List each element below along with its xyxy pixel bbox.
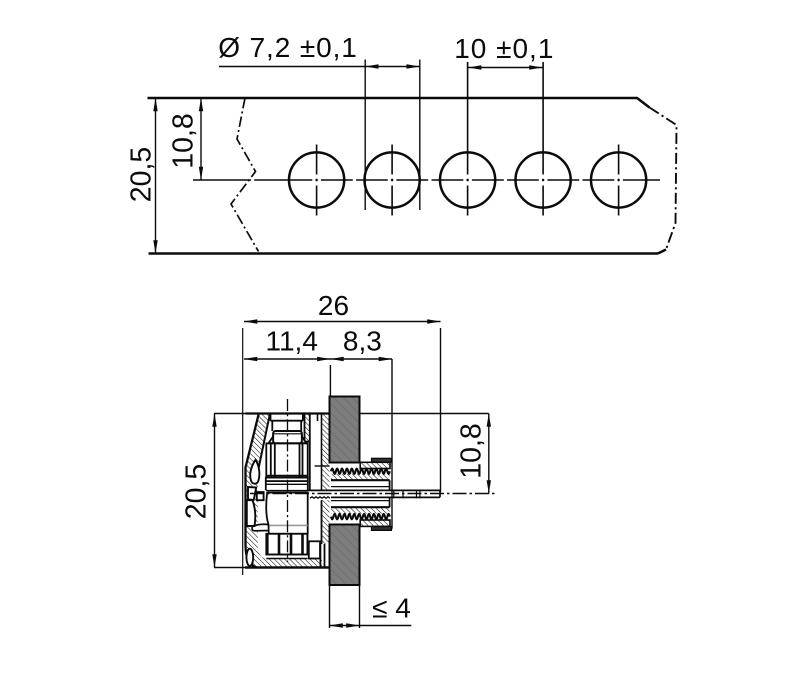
svg-text:8,3: 8,3 [343, 326, 382, 357]
svg-text:Ø 7,2 ±0,1: Ø 7,2 ±0,1 [218, 32, 358, 63]
svg-text:10,8: 10,8 [456, 423, 488, 478]
svg-text:20,5: 20,5 [181, 464, 213, 519]
svg-text:10 ±0,1: 10 ±0,1 [454, 33, 554, 64]
svg-text:≤ 4: ≤ 4 [372, 593, 411, 624]
svg-text:10,8: 10,8 [167, 113, 199, 168]
svg-text:11,4: 11,4 [265, 326, 317, 357]
svg-text:20,5: 20,5 [126, 147, 158, 202]
svg-text:26: 26 [318, 290, 349, 321]
